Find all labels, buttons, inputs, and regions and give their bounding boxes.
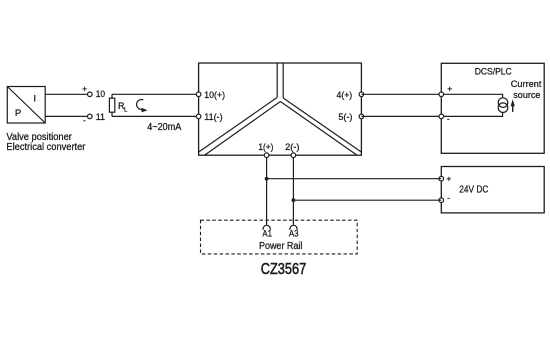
24V DC supply box bbox=[441, 167, 544, 213]
current source symbol U1 bbox=[498, 98, 508, 113]
DCS terminal + circle bbox=[439, 92, 444, 97]
DCS/PLC box bbox=[441, 63, 544, 153]
svg-text:-: - bbox=[447, 193, 450, 203]
24V terminal - circle bbox=[439, 198, 444, 203]
terminal 10(+) circle on isolator bbox=[196, 92, 201, 97]
field terminal circle 11 bbox=[88, 114, 93, 119]
terminal 1(+) circle on isolator bottom bbox=[264, 153, 269, 158]
wire from node A to 24V + bbox=[267, 178, 442, 180]
svg-text:DCS/PLC: DCS/PLC bbox=[475, 67, 512, 78]
wire 5(-) to DCS/PLC bbox=[361, 115, 441, 117]
isolator CZ3567 body bbox=[199, 63, 362, 155]
junction node A bbox=[265, 177, 269, 181]
svg-text:10(+): 10(+) bbox=[204, 90, 225, 101]
power rail contact A3 bbox=[290, 225, 297, 230]
wire from terminal 1(+) down to power rail A1 bbox=[266, 155, 268, 225]
svg-text:10: 10 bbox=[96, 89, 105, 100]
svg-text:source: source bbox=[513, 90, 540, 101]
current loop circulation arrow bbox=[137, 100, 148, 113]
svg-text:2(-): 2(-) bbox=[285, 142, 299, 153]
current direction arrow bbox=[511, 99, 515, 112]
wire from node B to 24V - bbox=[293, 199, 441, 201]
svg-text:CZ3567: CZ3567 bbox=[261, 261, 307, 278]
label Current source bbox=[511, 79, 542, 101]
svg-text:4~20mA: 4~20mA bbox=[147, 122, 181, 133]
svg-text:24V DC: 24V DC bbox=[459, 185, 488, 196]
isolation barrier Y symbol bbox=[199, 63, 361, 155]
svg-text:4(+): 4(+) bbox=[337, 90, 353, 101]
terminal 5(-) circle on isolator bbox=[359, 114, 364, 119]
valve positioner P/I converter box bbox=[7, 87, 45, 124]
svg-text:P: P bbox=[15, 108, 21, 119]
resistor RL bottom lead bbox=[111, 112, 113, 116]
svg-text:Electrical converter: Electrical converter bbox=[6, 142, 86, 153]
terminal 4(+) circle on isolator bbox=[359, 92, 364, 97]
internal wire to current source top bbox=[444, 94, 503, 98]
24V terminal + circle bbox=[439, 176, 444, 181]
svg-text:11: 11 bbox=[96, 112, 105, 123]
svg-text:Power Rail: Power Rail bbox=[259, 241, 303, 252]
field terminal circle 10 bbox=[88, 92, 93, 97]
svg-text:Valve positioner: Valve positioner bbox=[6, 132, 72, 143]
svg-text:A3: A3 bbox=[289, 229, 299, 240]
svg-text:5(-): 5(-) bbox=[338, 112, 352, 123]
terminal 2(-) circle on isolator bottom bbox=[291, 153, 296, 158]
resistor RL body bbox=[109, 98, 114, 112]
wire from terminal 2(-) down to power rail A3 bbox=[292, 155, 294, 225]
svg-text:11(-): 11(-) bbox=[204, 112, 222, 123]
wire: loop top conductor to isolator input 10(+) bbox=[112, 93, 199, 95]
svg-text:-: - bbox=[447, 114, 450, 124]
junction node B bbox=[292, 198, 296, 202]
svg-text:1(+): 1(+) bbox=[258, 142, 273, 153]
svg-text:+: + bbox=[447, 83, 452, 93]
svg-text:+: + bbox=[82, 84, 87, 94]
svg-text:A1: A1 bbox=[262, 229, 272, 240]
internal wire to current source bottom bbox=[444, 113, 503, 117]
wire from P/I box to field terminal 11 bbox=[45, 115, 87, 117]
svg-text:Current: Current bbox=[511, 79, 542, 90]
svg-text:+: + bbox=[446, 174, 451, 184]
label RL bbox=[118, 101, 128, 114]
power rail contact A1 bbox=[263, 225, 270, 230]
svg-text:-: - bbox=[83, 115, 86, 125]
wire from P/I box to field terminal 10 bbox=[45, 93, 87, 95]
wire: loop bottom conductor to isolator input 11(-) bbox=[112, 115, 199, 117]
wire 4(+) to DCS/PLC bbox=[361, 93, 441, 95]
svg-text:I: I bbox=[34, 94, 37, 104]
caption: Valve positioner / Electrical converter bbox=[6, 132, 86, 153]
power rail dashed enclosure bbox=[201, 220, 358, 254]
resistor RL top lead bbox=[111, 94, 113, 98]
terminal 11(-) circle on isolator bbox=[196, 114, 201, 119]
DCS terminal - circle bbox=[439, 114, 444, 119]
